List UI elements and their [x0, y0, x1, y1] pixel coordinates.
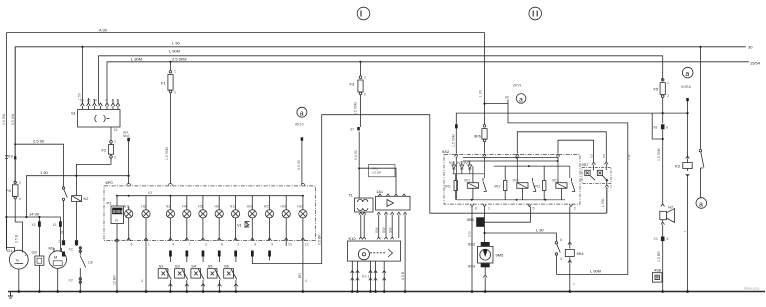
svg-text:F1: F1: [161, 81, 166, 86]
svg-text:X1: X1: [32, 223, 36, 227]
svg-text:SW: SW: [375, 227, 379, 233]
svg-text:9V1 9V2 9V3: 9V1 9V2 9V3: [449, 161, 470, 165]
svg-text:8888: 8888: [113, 209, 124, 214]
svg-text:1: 1: [488, 207, 490, 211]
svg-text:L 90: L 90: [479, 90, 483, 97]
svg-text:H2k: H2k: [280, 205, 286, 209]
svg-text:H25: H25: [264, 205, 270, 209]
svg-text:a: a: [300, 110, 304, 117]
svg-text:0.5: 0.5: [590, 153, 594, 158]
svg-text:9: 9: [254, 243, 256, 247]
svg-text:12: 12: [305, 243, 309, 247]
svg-text:30: 30: [748, 45, 753, 50]
svg-text:9R2: 9R2: [494, 185, 500, 189]
svg-text:3: 3: [205, 243, 207, 247]
svg-text:9K4: 9K4: [577, 251, 585, 256]
svg-text:2: 2: [19, 181, 21, 185]
svg-text:K3: K3: [675, 164, 681, 169]
svg-text:T1: T1: [348, 193, 353, 198]
svg-text:0.5 B: 0.5 B: [401, 271, 405, 280]
svg-text:P1: P1: [107, 201, 113, 206]
svg-text:2.5 90: 2.5 90: [33, 139, 45, 144]
svg-text:1: 1: [25, 253, 27, 257]
svg-text:1 50: 1 50: [78, 93, 82, 100]
svg-text:M: M: [54, 254, 57, 259]
svg-text:V1: V1: [237, 223, 243, 228]
svg-text:37: 37: [350, 128, 354, 132]
svg-text:8: 8: [475, 207, 477, 211]
svg-text:1: 1: [364, 76, 366, 80]
svg-text:S6: S6: [224, 263, 230, 268]
svg-text:9S3: 9S3: [468, 264, 476, 269]
svg-text:9K2: 9K2: [513, 179, 519, 183]
svg-text:5: 5: [271, 243, 273, 247]
svg-text:S3: S3: [175, 263, 181, 268]
svg-text:10: 10: [288, 243, 292, 247]
svg-text:L 90L: L 90L: [601, 198, 605, 207]
svg-text:9K1: 9K1: [464, 179, 470, 183]
svg-text:2.5 B: 2.5 B: [15, 234, 19, 243]
svg-text:9S2: 9S2: [468, 242, 476, 247]
svg-text:F5: F5: [654, 87, 659, 92]
svg-text:9S7: 9S7: [582, 162, 590, 167]
svg-text:5: 5: [533, 207, 535, 211]
svg-text:K2: K2: [84, 196, 90, 201]
svg-text:0.5 90: 0.5 90: [297, 160, 301, 170]
svg-text:F8: F8: [6, 188, 11, 193]
svg-text:16: 16: [58, 239, 62, 243]
svg-text:1: 1: [114, 140, 116, 144]
svg-text:L 90M: L 90M: [131, 57, 142, 62]
svg-text:14 90: 14 90: [29, 211, 40, 216]
svg-text:0.5 SW: 0.5 SW: [11, 113, 15, 125]
svg-text:1 90: 1 90: [40, 170, 49, 175]
svg-text:2.5 SW: 2.5 SW: [2, 113, 6, 125]
svg-text:1.5 90M: 1.5 90M: [452, 134, 456, 147]
svg-text:8: 8: [221, 243, 223, 247]
svg-text:1.5 BR: 1.5 BR: [657, 251, 661, 262]
svg-text:9K3: 9K3: [552, 179, 558, 183]
svg-text:6P0: 6P0: [106, 180, 114, 185]
svg-text:Mot.: Mot.: [123, 134, 130, 138]
svg-text:X2: X2: [69, 248, 73, 252]
svg-text:2: 2: [610, 185, 612, 189]
svg-text:H10: H10: [230, 205, 236, 209]
svg-text:2: 2: [364, 93, 366, 97]
svg-text:1: 1: [148, 243, 150, 247]
svg-text:4: 4: [305, 279, 307, 283]
svg-text:F3: F3: [350, 82, 355, 87]
svg-text:X8: X8: [653, 126, 657, 130]
svg-text:K1-1: K1-1: [362, 275, 369, 279]
svg-text:90: 90: [505, 96, 509, 100]
svg-text:4: 4: [560, 257, 562, 261]
svg-text:S2: S2: [159, 263, 165, 268]
svg-text:4: 4: [19, 197, 21, 201]
svg-text:4: 4: [141, 279, 143, 283]
svg-text:0.35: 0.35: [468, 231, 472, 237]
svg-text:X3: X3: [8, 154, 14, 159]
svg-text:9F6: 9F6: [474, 134, 482, 139]
svg-text:4S8: 4S8: [654, 267, 662, 272]
svg-text:SW: SW: [388, 227, 392, 233]
svg-text:1.5 90M: 1.5 90M: [165, 147, 169, 160]
svg-text:9A2: 9A2: [442, 149, 450, 154]
svg-text:G1: G1: [7, 248, 13, 253]
svg-text:L 90: L 90: [172, 41, 180, 46]
svg-text:0.5 BR: 0.5 BR: [372, 170, 382, 174]
svg-text:3: 3: [10, 264, 12, 268]
svg-text:9M5: 9M5: [496, 253, 505, 258]
svg-text:9B1: 9B1: [467, 217, 475, 222]
svg-text:ERWL1030: ERWL1030: [744, 287, 760, 291]
svg-text:15: 15: [87, 99, 91, 103]
svg-text:25: 25: [60, 230, 64, 234]
svg-text:S1: S1: [71, 111, 77, 116]
svg-text:15: 15: [114, 128, 118, 132]
svg-text:BR: BR: [298, 273, 302, 278]
svg-text:1A1: 1A1: [376, 189, 384, 194]
svg-text:H2h: H2h: [247, 205, 253, 209]
svg-text:H5: H5: [198, 205, 203, 209]
svg-text:L 90M: L 90M: [590, 269, 601, 274]
svg-text:15/54: 15/54: [750, 61, 761, 66]
svg-text:a: a: [699, 201, 703, 208]
svg-text:2: 2: [114, 156, 116, 160]
svg-text:2: 2: [574, 207, 576, 211]
svg-text:2: 2: [237, 243, 239, 247]
svg-text:M1: M1: [49, 246, 55, 251]
svg-text:1.5 90M: 1.5 90M: [657, 148, 661, 161]
svg-text:4: 4: [172, 243, 174, 247]
svg-text:H3: H3: [166, 205, 171, 209]
svg-text:S4: S4: [191, 263, 197, 268]
svg-text:H1: H1: [124, 205, 129, 209]
svg-text:0.5: 0.5: [602, 153, 606, 158]
svg-text:H7: H7: [668, 205, 674, 210]
svg-text:2.5 90M: 2.5 90M: [172, 57, 186, 62]
svg-text:8: 8: [560, 238, 562, 242]
svg-text:1: 1: [667, 81, 669, 85]
svg-text:50: 50: [93, 99, 97, 103]
svg-text:X1: X1: [654, 237, 658, 241]
svg-text:0.5 BR: 0.5 BR: [317, 234, 321, 245]
svg-text:G2: G2: [32, 250, 38, 255]
svg-text:A 90: A 90: [99, 28, 108, 33]
svg-text:X1: X1: [53, 223, 57, 227]
svg-text:10 BR: 10 BR: [113, 275, 117, 285]
svg-text:0.5 90: 0.5 90: [354, 150, 358, 160]
svg-text:12k: 12k: [88, 261, 94, 265]
svg-text:0.5 90M: 0.5 90M: [354, 102, 358, 115]
svg-text:KORA: KORA: [681, 85, 692, 89]
svg-text:G: G: [16, 258, 19, 263]
svg-text:9R1: 9R1: [445, 185, 451, 189]
svg-text:a: a: [685, 71, 689, 78]
svg-text:6: 6: [667, 237, 669, 241]
svg-text:SW: SW: [382, 227, 386, 233]
svg-text:K10: K10: [349, 236, 357, 241]
svg-text:2: 2: [174, 91, 176, 95]
svg-text:6: 6: [131, 243, 133, 247]
svg-text:H2: H2: [141, 205, 146, 209]
svg-text:H6: H6: [214, 205, 219, 209]
svg-text:AK10: AK10: [295, 123, 304, 127]
svg-text:9R3: 9R3: [534, 185, 540, 189]
svg-text:X2: X2: [69, 279, 73, 283]
svg-text:7: 7: [189, 243, 191, 247]
svg-text:a: a: [519, 97, 523, 104]
svg-text:V2: V2: [148, 191, 152, 195]
svg-text:1: 1: [573, 282, 575, 286]
svg-text:L 90: L 90: [536, 228, 544, 233]
svg-text:L 90: L 90: [627, 154, 631, 160]
svg-text:H4: H4: [182, 205, 187, 209]
svg-text:h: h: [116, 218, 118, 223]
svg-text:6: 6: [666, 126, 668, 130]
svg-text:1: 1: [174, 70, 176, 74]
svg-text:F2: F2: [102, 148, 107, 153]
svg-text:ZKV1: ZKV1: [513, 84, 522, 88]
svg-text:L 90M: L 90M: [169, 49, 180, 54]
svg-text:H10: H10: [297, 205, 303, 209]
svg-text:S5: S5: [208, 263, 214, 268]
svg-text:2: 2: [667, 94, 669, 98]
